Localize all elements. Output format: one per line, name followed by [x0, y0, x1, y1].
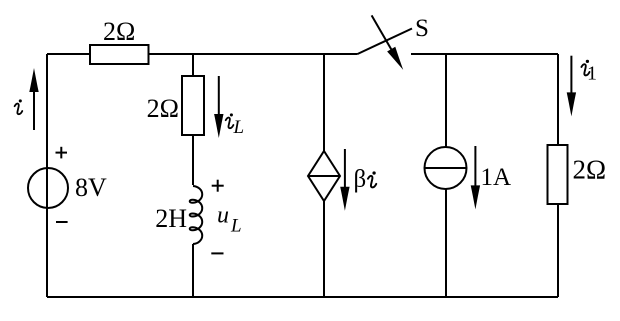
- wire branch 2 middle (resistor to inductor): [192, 135, 194, 185]
- switch S motion arrow line: [372, 15, 400, 64]
- current arrow beta-i (down): [340, 149, 349, 211]
- wire top rail right segment (switch to top-right corner): [411, 53, 558, 55]
- wire branch 4 bottom: [445, 189, 447, 297]
- wire top rail left segment: [47, 53, 90, 55]
- wire branch 2 top: [192, 54, 194, 76]
- svg-text:1: 1: [587, 63, 597, 85]
- polarity plus (8V source): [56, 147, 68, 159]
- current label iL: [226, 113, 234, 128]
- svg-text:2Ω: 2Ω: [147, 94, 179, 123]
- wire top rail middle segment (resistor to switch): [149, 53, 358, 55]
- svg-text:8V: 8V: [75, 173, 107, 202]
- switch S motion arrowhead: [387, 47, 407, 72]
- current label i (left): [15, 99, 23, 114]
- wire branch 3 bottom: [323, 201, 325, 297]
- inductor 2H coil: [190, 186, 203, 244]
- current label i1: [581, 60, 589, 76]
- dependent source beta-i diamond: [308, 151, 340, 201]
- svg-text:S: S: [415, 15, 429, 42]
- svg-text:L: L: [233, 117, 245, 138]
- switch S blade: [358, 29, 413, 55]
- wire branch 4 top: [445, 54, 447, 147]
- polarity minus (8V source): [56, 221, 68, 223]
- current source 1A circle: [425, 147, 467, 189]
- svg-text:β: β: [354, 166, 367, 193]
- wire left rail vertical: [46, 54, 48, 297]
- svg-text:2Ω: 2Ω: [103, 17, 135, 46]
- polarity minus (uL): [211, 252, 223, 254]
- voltage source 8V circle: [28, 168, 68, 208]
- polarity plus (uL): [212, 180, 224, 192]
- wire right rail upper: [557, 54, 559, 145]
- dependent source diamond middle bar: [308, 175, 340, 177]
- current arrow i (left, up): [29, 68, 38, 130]
- wire branch 3 top: [323, 54, 325, 151]
- current arrow i1 (down): [567, 56, 576, 117]
- wire bottom rail: [47, 296, 558, 298]
- svg-text:1A: 1A: [481, 164, 512, 191]
- resistor 2ohm right branch (vertical box): [548, 145, 568, 204]
- svg-text:u: u: [217, 203, 229, 229]
- wire right rail lower: [557, 204, 559, 297]
- wire branch 2 bottom: [192, 244, 194, 297]
- resistor 2ohm top-left (horizontal box): [90, 45, 149, 64]
- current arrow iL (down): [214, 76, 223, 138]
- svg-text:2H: 2H: [155, 204, 187, 233]
- svg-text:2Ω: 2Ω: [573, 155, 607, 185]
- current source 1A middle bar: [425, 167, 467, 169]
- current arrow 1A (down): [471, 146, 480, 209]
- resistor 2ohm branch 2 (vertical box): [182, 76, 204, 135]
- svg-text:L: L: [230, 216, 242, 237]
